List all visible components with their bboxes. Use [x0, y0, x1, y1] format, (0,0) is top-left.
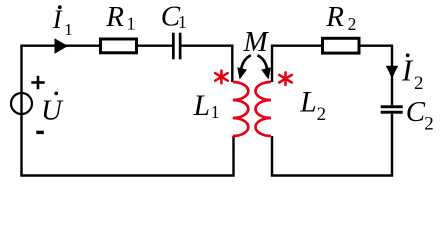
svg-text:1: 1 — [64, 20, 73, 39]
wire: R2 to top-right corner down to C2 — [361, 46, 393, 106]
wire: L1 bottom to left-loop bottom run — [20, 136, 233, 176]
coupling arrow to L1 — [237, 55, 251, 79]
inductor L2 coil — [255, 82, 271, 136]
capacitor C1 — [172, 33, 182, 60]
svg-text:R: R — [105, 1, 124, 33]
current I1 arrow — [55, 38, 69, 54]
svg-text:1: 1 — [178, 12, 187, 32]
dot marker (asterisk) of L1 — [215, 71, 228, 84]
svg-text:L: L — [193, 90, 210, 122]
svg-text:L: L — [299, 87, 316, 119]
svg-text:1: 1 — [211, 102, 220, 122]
dot marker (asterisk) of L2 — [279, 72, 292, 85]
plus sign of source — [31, 76, 44, 89]
wire: C1 to top-right corner down to L1 top — [182, 46, 233, 82]
svg-text:2: 2 — [317, 104, 327, 125]
label C2 — [406, 96, 434, 135]
current I2 arrow — [386, 66, 398, 78]
svg-text:1: 1 — [127, 13, 136, 33]
label L2 — [299, 87, 326, 125]
svg-text:I: I — [401, 53, 414, 87]
label U (dotted) — [41, 92, 64, 127]
wire: R1 to C1 — [138, 45, 172, 47]
inductor L1 coil — [233, 82, 249, 136]
svg-text:2: 2 — [424, 114, 434, 135]
coupling arrow to L2 — [258, 55, 271, 79]
label I1 (dotted) — [52, 4, 73, 39]
minus sign of source — [36, 131, 44, 134]
capacitor C2 — [381, 105, 403, 113]
voltage source U circle — [11, 93, 32, 114]
svg-text:M: M — [243, 26, 270, 58]
svg-text:2: 2 — [348, 14, 357, 34]
wire: L2 top to corner to R2 — [272, 46, 321, 82]
svg-text:C: C — [406, 96, 426, 128]
wire: C2 bottom down, right-loop bottom run, up to L2 bottom — [272, 114, 392, 176]
label C1 — [161, 0, 187, 32]
svg-text:U: U — [41, 94, 64, 126]
svg-text:2: 2 — [414, 73, 424, 94]
label L1 — [193, 90, 220, 122]
label R1 — [105, 1, 135, 33]
resistor R2 — [323, 38, 360, 53]
label I2 (dotted) — [401, 53, 424, 94]
wire: left loop left vertical + top run to R1 — [22, 46, 100, 176]
resistor R1 — [101, 39, 137, 53]
svg-text:R: R — [325, 1, 344, 33]
label R2 — [325, 1, 356, 34]
